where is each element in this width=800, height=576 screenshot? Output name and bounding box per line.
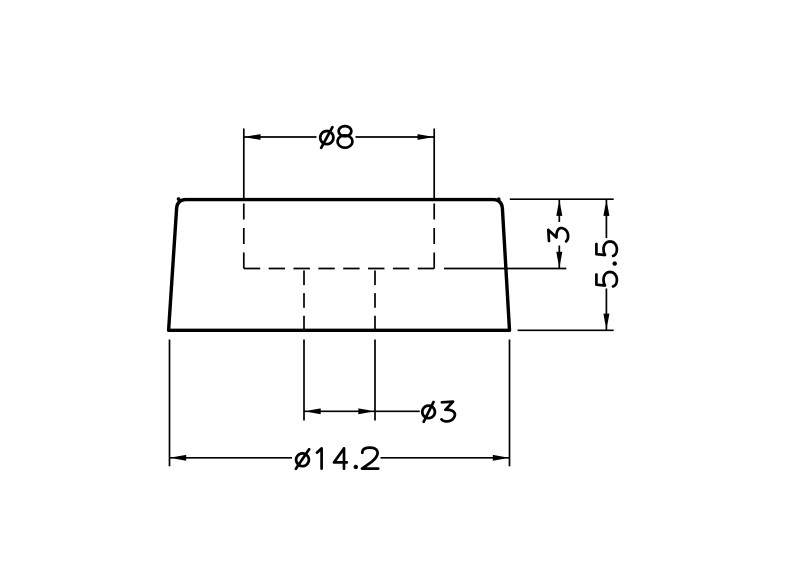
dim 5.5 arrow down	[603, 314, 609, 331]
dim o3 text	[422, 402, 455, 422]
dim o8 extension line right	[433, 129, 435, 200]
hidden line: recess bottom	[244, 268, 434, 270]
dim o14.2 arrow left	[170, 455, 187, 461]
dim o3 arrow left	[304, 408, 321, 414]
dim o8 arrow left	[244, 134, 261, 140]
dim 3 arrow up	[556, 199, 562, 216]
corner tick left	[177, 197, 181, 201]
dim o8 dimension line left segment	[244, 136, 317, 138]
dim o14.2 extension line left	[169, 340, 171, 467]
hidden line: recess left wall	[243, 204, 245, 269]
dim o3 dimension line with leader	[304, 410, 420, 412]
dim 3 arrow down	[556, 252, 562, 269]
part outline (trapezoid cross-section)	[169, 200, 510, 331]
dim o3 arrow right	[358, 408, 375, 414]
dim o3 extension line right	[374, 340, 376, 421]
dim o3 extension line left	[303, 340, 305, 421]
dim 3 text (rotated)	[548, 228, 568, 241]
dim o14.2 text	[296, 448, 378, 469]
dim o8 arrow right	[418, 134, 435, 140]
dim 3 dimension line bottom segment	[558, 246, 560, 269]
hidden line: hole right wall	[374, 271, 376, 331]
dim 5.5 dimension line bottom segment	[605, 289, 607, 331]
dim 5.5 text (rotated)	[596, 242, 617, 287]
dim 5.5 dimension line top segment	[605, 199, 607, 238]
top-right extension line (for 3 and 5.5)	[510, 198, 614, 200]
corner tick right	[497, 197, 500, 200]
mid extension line (recess depth)	[444, 268, 566, 270]
dim o14.2 arrow right	[493, 455, 510, 461]
hidden line: hole left wall	[303, 271, 305, 331]
dim o8 dimension line right segment	[356, 136, 435, 138]
dim o14.2 extension line right	[509, 340, 511, 467]
dim o14.2 dimension line left segment	[170, 457, 293, 459]
dim o14.2 dimension line right segment	[381, 457, 510, 459]
hidden line: recess right wall	[433, 204, 435, 269]
dim 5.5 arrow up	[603, 199, 609, 216]
dim 3 dimension line top segment	[558, 199, 560, 222]
bottom-right extension line (for 5.5)	[518, 329, 614, 331]
dim o8 extension line left	[243, 129, 245, 200]
dim o8 text	[320, 126, 352, 148]
